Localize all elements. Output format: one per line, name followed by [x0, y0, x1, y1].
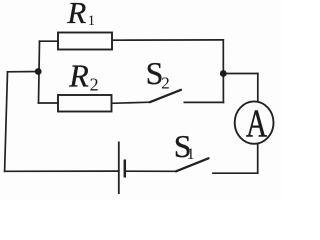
node right junction: [220, 70, 227, 77]
wire R1 left lead: [40, 40, 60, 42]
switch S1 blade: [176, 158, 209, 171]
wire R2 left lead: [39, 102, 60, 104]
wire left dot to edge: [8, 71, 39, 73]
wire mid vertical branch: [39, 41, 40, 103]
wire bottom right stub: [213, 172, 258, 174]
svg-text:1: 1: [88, 13, 96, 29]
svg-text:R: R: [66, 0, 86, 30]
battery short plate: [124, 160, 127, 178]
resistor R1: [58, 33, 112, 50]
svg-text:1: 1: [187, 146, 195, 163]
svg-text:2: 2: [161, 73, 170, 92]
wire battery to switch S1: [125, 170, 176, 172]
wire ammeter bottom lead: [257, 144, 259, 174]
node left junction: [35, 68, 42, 75]
wire node to ammeter tap: [223, 73, 257, 75]
resistor R2: [58, 95, 112, 112]
wire right vertical branch: [222, 40, 224, 103]
svg-text:R: R: [68, 57, 89, 93]
wire ammeter top lead: [257, 74, 259, 103]
wire bottom left run: [5, 170, 119, 172]
wire S2 contact stub: [184, 101, 223, 103]
switch S2 blade: [150, 90, 181, 102]
svg-text:2: 2: [90, 75, 99, 95]
wire R2 right lead: [111, 102, 150, 103]
wire R1 right lead: [112, 39, 224, 41]
svg-text:A: A: [246, 102, 267, 145]
battery long plate: [118, 142, 120, 195]
ammeter U1 circle: [235, 101, 274, 143]
wire left vertical: [5, 72, 8, 172]
